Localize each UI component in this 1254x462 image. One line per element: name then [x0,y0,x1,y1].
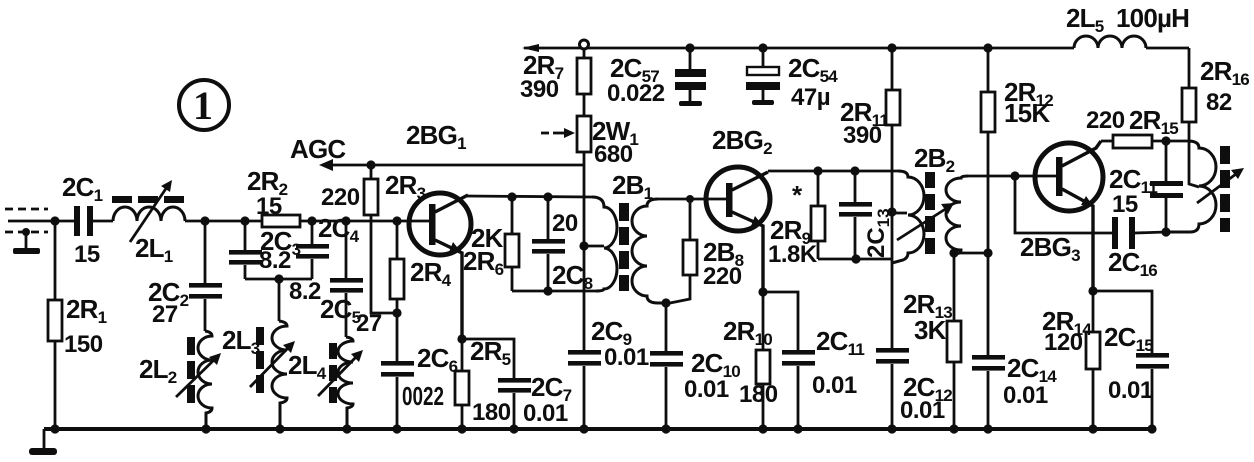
resistor 2R2 [247,166,300,227]
svg-text:100µH: 100µH [1116,3,1189,33]
capacitor 2C16 [1108,217,1166,280]
svg-text:8.2: 8.2 [259,247,291,274]
svg-text:390: 390 [520,76,559,103]
svg-text:0.01: 0.01 [523,400,568,427]
svg-text:15: 15 [256,193,282,220]
svg-text:0022: 0022 [402,381,444,411]
wire (2B1 secondary top to 2BG2 base) [658,198,728,201]
svg-text:220: 220 [321,184,360,211]
AGC line [290,134,584,171]
svg-text:220: 220 [1086,107,1125,134]
wire (2C3/2C4 node) [245,278,312,281]
wire (main signal line) [185,220,431,223]
resistor 2R14 [1042,286,1100,429]
inductor 2L2 (variable) [139,331,221,429]
wire (2B2 secondary top to 2BG3 base) [968,175,1056,178]
resistor 2R15 [1086,105,1188,148]
transformer 2B2 primary [892,143,955,263]
resistor 2R7 [520,49,591,116]
transistor 2BG2 [706,125,772,292]
resistor 2B8 (2R8) [670,195,744,303]
capacitor 2C9 [568,152,649,429]
top supply rail [522,44,1189,52]
svg-text:0.01: 0.01 [900,397,945,424]
resistor 2R11 [840,43,900,348]
svg-text:180: 180 [472,399,511,426]
svg-text:390: 390 [843,122,882,149]
svg-text:3K: 3K [914,315,947,345]
resistor 2R16 [1182,48,1249,187]
node (2BG3 base junction) [1010,171,1019,180]
svg-text:0.01: 0.01 [812,372,857,399]
svg-text:2BG2: 2BG2 [712,125,772,158]
resistor 2R6 [463,192,519,291]
output coil (variable) [1166,141,1244,232]
antenna shielded input [5,209,74,254]
resistor 2R5 [455,334,511,429]
transistor 2BG1 [406,120,471,339]
capacitor 2C1 [62,172,103,268]
potentiometer 2W1 [541,116,638,168]
transformer 2B2 core [925,172,935,254]
transformer 2B2 secondary (variable coupling) [897,176,968,254]
wire (2BG2 collector line) [768,170,898,173]
svg-text:220: 220 [703,263,742,290]
svg-text:0.01: 0.01 [1003,382,1048,409]
svg-text:82: 82 [1206,89,1232,116]
node A (antenna junction) [50,216,59,225]
capacitor 2C17 (printed 2C11) [1109,141,1183,237]
svg-text:0.01: 0.01 [684,376,729,403]
svg-text:150: 150 [64,331,103,358]
svg-text:8.2: 8.2 [289,278,321,305]
resistor 2R4 [390,216,452,317]
transistor 2BG3 [1020,141,1103,291]
svg-text:15: 15 [74,241,100,268]
svg-text:2BG3: 2BG3 [1020,232,1080,265]
svg-text:2BG1: 2BG1 [406,120,466,153]
capacitor 2C54 (electrolytic) [746,43,838,111]
capacitor 2C13 [839,166,893,263]
capacitor 2C57 [607,43,706,107]
wire [93,220,113,223]
capacitor 2C12 [876,348,952,429]
transformer 2B1 primary [579,170,652,291]
svg-text:0.022: 0.022 [607,80,665,107]
resistor 2R1 [48,221,107,429]
svg-text:120: 120 [1044,329,1083,356]
wire (2R6/2C8 bottom) [512,290,598,293]
circled figure number 1 [179,80,229,130]
svg-text:20: 20 [552,210,578,237]
capacitor 2C10 [650,298,740,429]
transformer 2B1 secondary [632,199,666,303]
wire (2R9/2C13 bottom) [818,258,892,261]
capacitor 2C3 [229,216,301,279]
capacitor 2C5 [320,216,382,337]
inductor 2L4 (variable) [288,337,363,429]
inductor 2L1 (variable) [112,180,185,266]
svg-text:15: 15 [1112,191,1138,218]
resistor 2R10 [723,287,778,429]
transformer 2B1 core [619,203,629,291]
resistor 2R3 [321,160,426,313]
inductor 2L3 (variable) [222,279,295,429]
svg-text:1: 1 [193,83,213,128]
svg-text:0.01: 0.01 [604,344,649,371]
capacitor 2C8 [532,192,593,293]
svg-text:0.01: 0.01 [1108,377,1153,404]
capacitor 2C14 [972,353,1057,429]
capacitor 2C6 [381,313,458,429]
resistor 2R12 [981,43,1053,355]
svg-text:27: 27 [152,301,178,328]
output coil core [1220,146,1230,232]
wire (base feedback to 2C16) [1015,176,1112,233]
resistor 2R9 [768,166,825,268]
svg-text:AGC: AGC [290,134,346,164]
capacitor 2C2 [148,216,222,331]
svg-text:680: 680 [594,141,633,168]
resistor 2R13 [903,253,961,429]
wire (2B2 secondary bottom) [954,252,988,255]
ground rail junctions [50,424,1156,433]
ground symbol [29,429,57,455]
capacitor 2C7 [462,339,572,429]
svg-text:15K: 15K [1004,98,1050,128]
svg-text:1.8K: 1.8K [768,241,818,268]
capacitor 2C15 [1093,291,1169,429]
wire (2BG1 collector line) [466,196,592,197]
junction hop at 2R7 column [580,40,589,49]
svg-text:180: 180 [739,381,778,408]
ground rail [44,427,1154,431]
inductor 2L5 [1066,3,1189,48]
svg-text:47µ: 47µ [791,84,830,111]
capacitor 2C4 [289,213,360,305]
capacitor 2C11 [763,292,864,429]
